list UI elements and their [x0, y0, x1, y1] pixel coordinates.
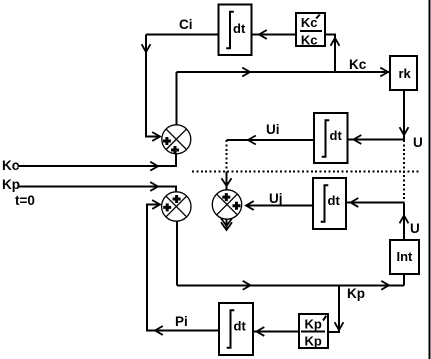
svg-text:Kc: Kc [349, 57, 367, 72]
svg-text:Int: Int [397, 249, 414, 264]
svg-text:Kc: Kc [301, 15, 318, 30]
svg-text:Pi: Pi [175, 314, 188, 329]
svg-text:Kp: Kp [2, 177, 20, 192]
svg-text:Kp: Kp [347, 286, 365, 301]
svg-text:dt: dt [328, 193, 341, 208]
svg-text:Kp: Kp [305, 317, 322, 332]
svg-text:rk: rk [399, 66, 412, 81]
svg-text:t=0: t=0 [15, 193, 35, 208]
svg-text:Ui: Ui [266, 122, 280, 137]
svg-text:U: U [413, 135, 423, 150]
svg-text:Kc: Kc [2, 158, 20, 173]
svg-text:dt: dt [233, 21, 246, 36]
svg-text:U: U [410, 221, 420, 236]
svg-text:dt: dt [234, 319, 247, 334]
svg-text:Kc: Kc [301, 32, 318, 47]
svg-text:Ci: Ci [179, 17, 193, 32]
svg-text:Uj: Uj [269, 191, 283, 206]
svg-text:Kp: Kp [305, 333, 322, 348]
svg-text:dt: dt [330, 128, 343, 143]
